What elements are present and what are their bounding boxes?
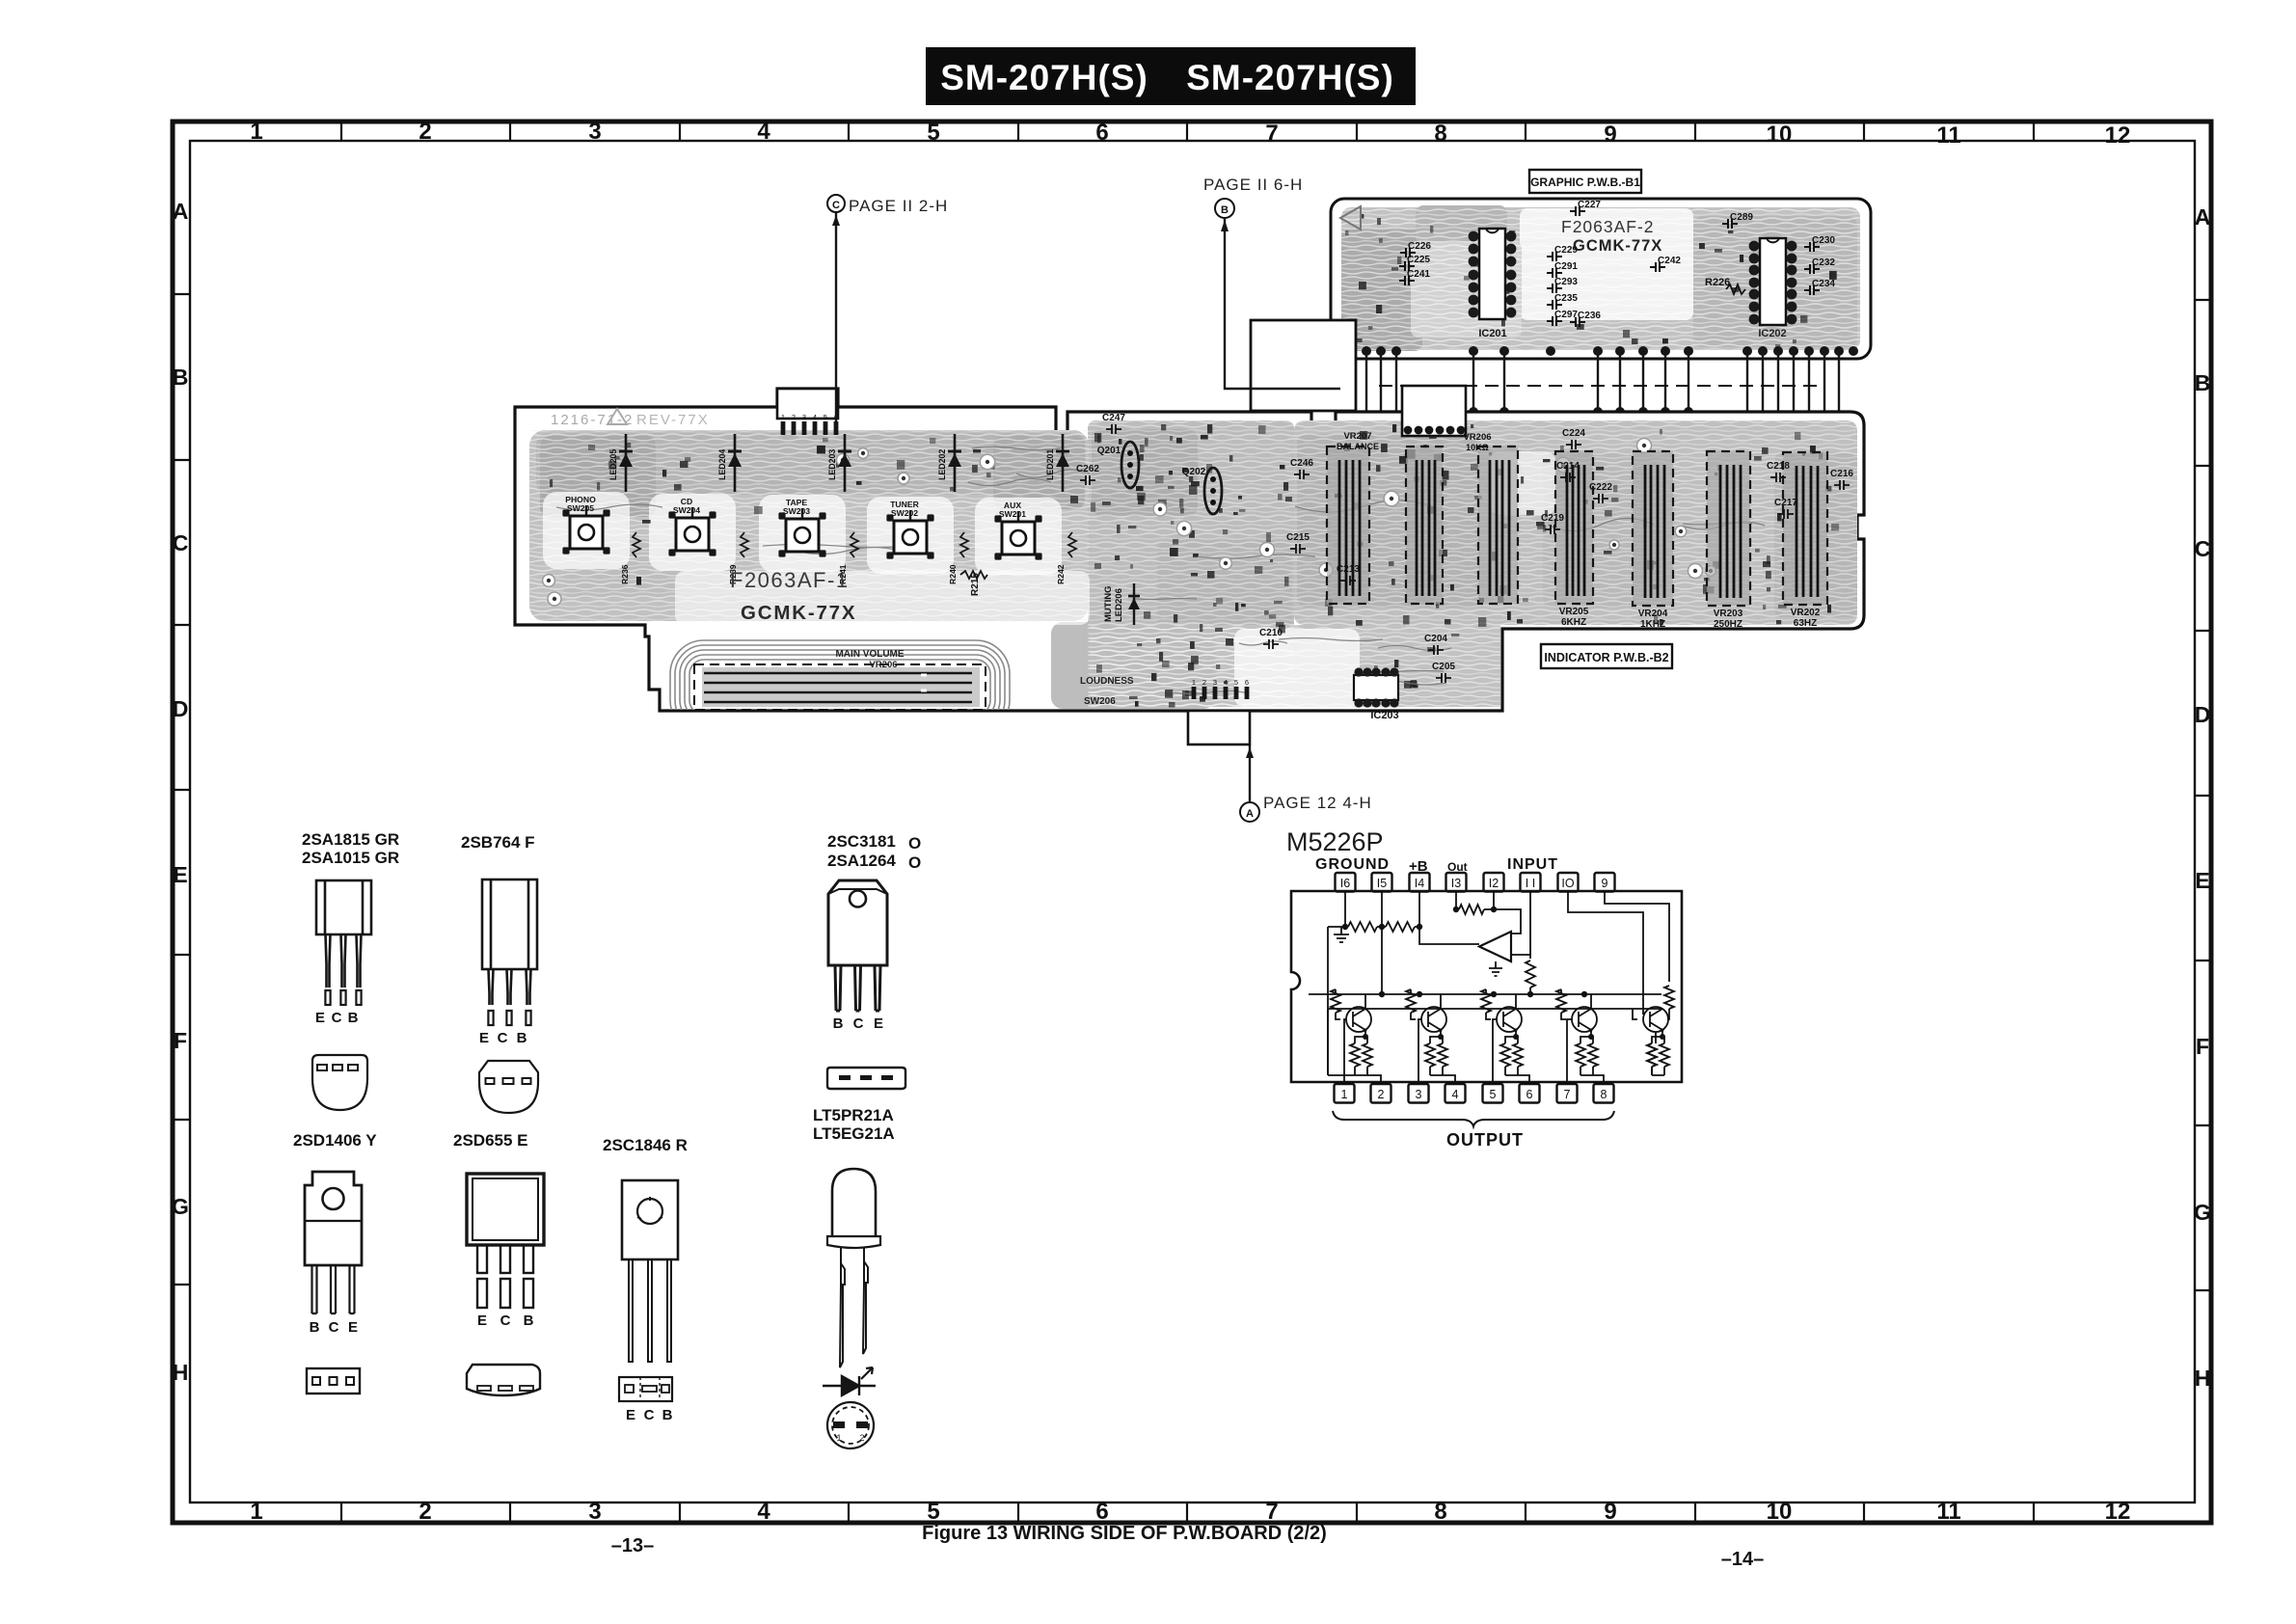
resistor R242 xyxy=(1056,532,1076,584)
svg-text:I4: I4 xyxy=(1415,877,1424,890)
svg-text:I3: I3 xyxy=(1451,877,1461,890)
svg-text:11: 11 xyxy=(1936,1499,1960,1525)
svg-text:IC201: IC201 xyxy=(1478,328,1506,339)
svg-text:M5226P: M5226P xyxy=(1286,827,1384,856)
svg-text:R236: R236 xyxy=(620,564,630,584)
svg-text:C: C xyxy=(644,1407,655,1423)
svg-text:12: 12 xyxy=(2105,1499,2131,1525)
capacitor C235 xyxy=(1547,293,1578,310)
top band ticks xyxy=(173,122,2211,1523)
svg-text:6: 6 xyxy=(1245,678,1249,687)
svg-text:LED205: LED205 xyxy=(608,449,618,480)
svg-text:Figure 13 WIRING SIDE OF P.W.: Figure 13 WIRING SIDE OF P.W.BOARD (2/2) xyxy=(922,1523,1327,1544)
svg-text:C241: C241 xyxy=(1407,269,1430,280)
connector tab VR207 balance pot slot xyxy=(1251,320,1356,411)
svg-text:C219: C219 xyxy=(1541,513,1564,524)
capacitor C297 xyxy=(1547,310,1578,326)
svg-text:VR205: VR205 xyxy=(1559,607,1589,617)
connector CN (bottom, to page 12 4-H) xyxy=(1188,678,1250,744)
capacitor C226 xyxy=(1400,241,1431,257)
svg-text:F: F xyxy=(174,1028,187,1053)
node C PAGE 11 2-H xyxy=(827,195,948,429)
svg-text:C210: C210 xyxy=(1259,628,1283,638)
LED bottom view xyxy=(827,1402,874,1448)
graphic equalizer board GRAPHIC PWB-B1 outline xyxy=(1331,199,1871,359)
capacitor C242 xyxy=(1650,256,1681,272)
svg-text:4: 4 xyxy=(1224,678,1228,687)
transistor cell T5 xyxy=(1633,1007,1669,1075)
svg-text:C224: C224 xyxy=(1562,428,1585,439)
capacitor C215 xyxy=(1286,532,1310,554)
switch SW202 TUNER xyxy=(886,500,933,559)
svg-text:E: E xyxy=(2195,868,2209,893)
transistor package 2SA1815/2SA1015 xyxy=(302,830,399,1110)
svg-text:1: 1 xyxy=(250,1499,262,1525)
svg-text:SM-207H(S): SM-207H(S) xyxy=(940,58,1148,97)
svg-text:E: E xyxy=(348,1319,358,1336)
capacitor C230 xyxy=(1804,235,1835,252)
svg-text:B: B xyxy=(310,1319,320,1336)
svg-text:4: 4 xyxy=(757,1499,770,1525)
svg-text:B: B xyxy=(1221,204,1229,216)
svg-text:E: E xyxy=(479,1030,489,1046)
svg-text:Q202: Q202 xyxy=(1182,467,1206,477)
svg-text:GCMK-77X: GCMK-77X xyxy=(1573,237,1662,255)
svg-text:Q201: Q201 xyxy=(1097,446,1121,456)
svg-text:2SD655 E: 2SD655 E xyxy=(453,1131,528,1150)
connector CN (top, to page 11 2-H) xyxy=(777,389,838,435)
capacitor C218 xyxy=(1767,461,1790,482)
svg-text:C262: C262 xyxy=(1076,464,1099,474)
svg-text:D: D xyxy=(2195,702,2211,727)
svg-text:C297: C297 xyxy=(1554,310,1578,320)
svg-text:4: 4 xyxy=(757,119,770,145)
capacitor C247 xyxy=(1102,413,1125,434)
volume slider VR206 MAIN VOLUME xyxy=(694,649,986,710)
svg-text:R242: R242 xyxy=(1056,564,1066,584)
svg-text:5: 5 xyxy=(1234,678,1238,687)
svg-text:2: 2 xyxy=(419,1499,431,1525)
capacitor C210 xyxy=(1259,628,1283,649)
capacitor C205 xyxy=(1432,662,1455,683)
svg-text:2SC3181: 2SC3181 xyxy=(827,832,896,851)
svg-text:IC203: IC203 xyxy=(1370,710,1398,721)
svg-text:63HZ: 63HZ xyxy=(1794,618,1817,629)
svg-text:INDICATOR P.W.B.-B2: INDICATOR P.W.B.-B2 xyxy=(1544,651,1668,664)
svg-text:I2: I2 xyxy=(1489,877,1499,890)
slider pot VR204 xyxy=(1633,451,1673,630)
svg-text:IO: IO xyxy=(1561,877,1574,890)
svg-text:G: G xyxy=(2194,1200,2211,1225)
slider pot VR205 xyxy=(1555,451,1593,628)
svg-text:O: O xyxy=(908,834,921,853)
svg-text:8: 8 xyxy=(1434,121,1446,147)
svg-text:C232: C232 xyxy=(1812,257,1835,268)
svg-text:B: B xyxy=(833,1015,844,1032)
svg-text:MUTING: MUTING xyxy=(1103,586,1114,622)
op-amp IC201 (DIP package) xyxy=(1469,229,1517,339)
svg-text:C289: C289 xyxy=(1730,212,1753,223)
svg-text:B: B xyxy=(662,1407,673,1423)
svg-text:LT5PR21A: LT5PR21A xyxy=(813,1106,894,1124)
svg-text:1: 1 xyxy=(836,1433,841,1443)
svg-text:LT5EG21A: LT5EG21A xyxy=(813,1124,895,1143)
svg-text:C227: C227 xyxy=(1578,200,1601,210)
transistor cell T4 xyxy=(1556,989,1598,1075)
LED LED204 xyxy=(717,434,742,492)
svg-text:VR207: VR207 xyxy=(1343,431,1371,442)
svg-text:A: A xyxy=(1246,808,1254,820)
svg-text:VR203: VR203 xyxy=(1714,609,1743,619)
svg-text:B: B xyxy=(2195,370,2211,395)
svg-text:SW206: SW206 xyxy=(1084,696,1116,707)
transistor Q202 xyxy=(1182,467,1222,514)
svg-text:SW204: SW204 xyxy=(673,505,700,515)
svg-text:F2063AF-1: F2063AF-1 xyxy=(730,568,850,592)
svg-text:GRAPHIC P.W.B.-B1: GRAPHIC P.W.B.-B1 xyxy=(1530,176,1640,189)
svg-text:R226: R226 xyxy=(1705,277,1730,288)
switch SW203 TAPE xyxy=(778,498,825,557)
svg-text:2SD1406 Y: 2SD1406 Y xyxy=(293,1131,377,1150)
svg-text:LED204: LED204 xyxy=(717,449,727,480)
svg-text:SW205: SW205 xyxy=(567,503,594,513)
switch SW204 CD xyxy=(668,497,716,556)
svg-text:PAGE 12 4-H: PAGE 12 4-H xyxy=(1263,794,1372,812)
slider pot VR xyxy=(1406,447,1443,604)
LED LED205 xyxy=(608,434,633,492)
trace squiggles xyxy=(556,447,1765,694)
svg-text:E: E xyxy=(477,1313,487,1329)
svg-text:3: 3 xyxy=(802,413,806,421)
svg-text:9: 9 xyxy=(1602,877,1608,890)
svg-text:2SA1815 GR: 2SA1815 GR xyxy=(302,830,399,849)
svg-text:VR204: VR204 xyxy=(1638,609,1668,619)
svg-text:C215: C215 xyxy=(1286,532,1310,543)
slider pot VR xyxy=(1327,447,1369,604)
capacitor C213 xyxy=(1337,564,1360,585)
svg-text:C: C xyxy=(498,1030,508,1046)
svg-text:BALANCE: BALANCE xyxy=(1337,442,1379,451)
svg-text:9: 9 xyxy=(1604,1499,1616,1525)
svg-text:–14–: –14– xyxy=(1721,1549,1765,1570)
svg-text:I I: I I xyxy=(1526,877,1535,890)
svg-text:1: 1 xyxy=(781,413,785,421)
capacitor C217 xyxy=(1774,498,1797,519)
svg-text:10: 10 xyxy=(1767,1499,1793,1525)
transistor cell T3 xyxy=(1481,989,1523,1075)
svg-text:VR206: VR206 xyxy=(1463,432,1491,443)
svg-text:C218: C218 xyxy=(1767,461,1790,472)
capacitor C232 xyxy=(1804,257,1835,274)
svg-text:11: 11 xyxy=(1936,122,1960,149)
svg-text:C230: C230 xyxy=(1812,235,1835,246)
slider pot VR203 xyxy=(1707,451,1750,630)
svg-text:6: 6 xyxy=(1095,120,1108,146)
IC body xyxy=(1291,891,1682,1082)
svg-text:INPUT: INPUT xyxy=(1507,856,1558,873)
svg-text:SM-207H(S): SM-207H(S) xyxy=(1186,58,1394,97)
svg-text:12: 12 xyxy=(2105,122,2131,149)
internal wiring xyxy=(1328,891,1349,1075)
capacitor C289 xyxy=(1722,212,1753,229)
svg-text:MAIN VOLUME: MAIN VOLUME xyxy=(835,649,904,660)
svg-text:I6: I6 xyxy=(1340,877,1350,890)
svg-text:B: B xyxy=(348,1010,359,1026)
svg-text:E: E xyxy=(626,1407,635,1423)
capacitor C219 xyxy=(1541,513,1564,534)
svg-text:O: O xyxy=(908,853,921,872)
svg-text:C222: C222 xyxy=(1589,482,1612,493)
transistor package 2SD655 xyxy=(453,1131,544,1395)
svg-text:C: C xyxy=(853,1015,864,1032)
svg-text:2: 2 xyxy=(792,413,796,421)
svg-text:OUTPUT: OUTPUT xyxy=(1446,1130,1524,1150)
svg-text:C217: C217 xyxy=(1774,498,1797,508)
svg-text:E: E xyxy=(874,1015,883,1032)
svg-text:SW201: SW201 xyxy=(999,509,1026,519)
svg-text:8: 8 xyxy=(1434,1499,1446,1525)
transistor package 2SC1846 xyxy=(603,1136,688,1423)
svg-text:C291: C291 xyxy=(1554,261,1578,272)
transistor package 2SC3181/2SA1264 xyxy=(827,832,921,1089)
label GRAPHIC PWB-B1 xyxy=(1529,170,1641,193)
svg-text:C: C xyxy=(832,200,840,211)
slider pot VR xyxy=(1478,447,1518,604)
svg-text:E: E xyxy=(173,862,187,887)
svg-text:8: 8 xyxy=(1601,1088,1607,1101)
transistor package 2SB764 xyxy=(461,833,538,1113)
svg-text:2: 2 xyxy=(419,119,431,145)
svg-text:C214: C214 xyxy=(1556,461,1580,472)
svg-text:C234: C234 xyxy=(1812,279,1835,289)
LED206 MUTING xyxy=(1103,583,1140,625)
switch SW205 PHONO xyxy=(562,495,609,555)
capacitor C222 xyxy=(1589,482,1612,503)
capacitor C262 xyxy=(1076,464,1099,485)
svg-text:5: 5 xyxy=(824,413,827,421)
capacitor C229 xyxy=(1547,245,1578,261)
svg-text:C205: C205 xyxy=(1432,662,1455,672)
capacitor C293 xyxy=(1547,277,1578,293)
svg-text:VR206: VR206 xyxy=(869,660,897,670)
svg-text:C226: C226 xyxy=(1408,241,1431,252)
svg-text:REV-77X: REV-77X xyxy=(636,412,710,428)
LED LED201 xyxy=(1045,434,1069,492)
transistor cell T2 xyxy=(1406,989,1447,1075)
capacitor C241 xyxy=(1399,269,1430,285)
connector tab (6P) xyxy=(1402,386,1466,436)
svg-text:C242: C242 xyxy=(1658,256,1681,266)
svg-text:9: 9 xyxy=(1604,122,1616,148)
svg-text:C293: C293 xyxy=(1554,277,1578,287)
svg-text:2SA1264: 2SA1264 xyxy=(827,852,896,870)
svg-text:10: 10 xyxy=(1767,122,1793,148)
svg-text:2: 2 xyxy=(859,1433,864,1443)
svg-text:2SC1846 R: 2SC1846 R xyxy=(603,1136,688,1154)
transistor cell T1 xyxy=(1331,989,1372,1075)
capacitor C246 xyxy=(1290,458,1313,479)
svg-text:A: A xyxy=(173,199,189,224)
svg-text:C236: C236 xyxy=(1578,311,1601,321)
capacitor C216 xyxy=(1830,469,1853,490)
label INDICATOR PWB-B2 xyxy=(1541,644,1672,668)
resistor R239 xyxy=(728,532,748,584)
svg-text:3: 3 xyxy=(588,1499,601,1525)
svg-text:3: 3 xyxy=(1213,678,1217,687)
svg-text:LOUDNESS: LOUDNESS xyxy=(1080,676,1134,687)
capacitor C224 xyxy=(1562,428,1585,449)
capacitor C291 xyxy=(1547,261,1578,278)
svg-text:GCMK-77X: GCMK-77X xyxy=(741,602,856,624)
svg-text:–13–: –13– xyxy=(611,1535,655,1556)
svg-text:B: B xyxy=(517,1030,527,1046)
svg-text:LED203: LED203 xyxy=(827,449,837,480)
svg-text:4: 4 xyxy=(813,413,817,421)
main board F2063AF-1 outline xyxy=(515,389,1864,711)
switch SW201 AUX xyxy=(994,501,1041,560)
svg-text:F2063AF-2: F2063AF-2 xyxy=(1561,217,1655,236)
svg-text:C: C xyxy=(500,1313,511,1329)
svg-text:C: C xyxy=(173,530,189,555)
svg-text:C229: C229 xyxy=(1554,245,1578,256)
board name F2063AF-2 xyxy=(1561,217,1662,255)
svg-text:A: A xyxy=(2195,204,2211,230)
LED symbol xyxy=(823,1367,876,1395)
svg-text:10KΩ: 10KΩ xyxy=(1466,443,1489,452)
svg-text:VR202: VR202 xyxy=(1791,608,1821,618)
LED LED203 xyxy=(827,434,851,492)
svg-text:LED202: LED202 xyxy=(937,449,947,480)
svg-text:7: 7 xyxy=(1265,121,1278,147)
svg-text:7: 7 xyxy=(1564,1088,1571,1101)
svg-text:G: G xyxy=(172,1194,189,1219)
svg-text:4: 4 xyxy=(1452,1088,1459,1101)
op-amp IC202 (DIP package) xyxy=(1749,238,1797,339)
svg-text:C246: C246 xyxy=(1290,458,1313,469)
transistor package 2SD1406 xyxy=(293,1131,377,1394)
svg-text:C204: C204 xyxy=(1424,634,1447,644)
capacitor C236 xyxy=(1570,311,1601,327)
svg-text:PAGE II 6-H: PAGE II 6-H xyxy=(1203,176,1303,194)
svg-text:2: 2 xyxy=(1202,678,1206,687)
svg-text:6: 6 xyxy=(1095,1499,1108,1525)
svg-text:2SA1015 GR: 2SA1015 GR xyxy=(302,849,399,867)
svg-text:7: 7 xyxy=(1265,1499,1278,1525)
svg-text:6KHZ: 6KHZ xyxy=(1561,617,1586,628)
svg-text:250HZ: 250HZ xyxy=(1714,619,1742,630)
svg-text:3: 3 xyxy=(1416,1088,1422,1101)
slider pot VR202 xyxy=(1783,452,1827,629)
node B PAGE 11 6-H xyxy=(1203,176,1340,389)
svg-text:1: 1 xyxy=(1341,1088,1348,1101)
svg-text:H: H xyxy=(2195,1366,2211,1391)
svg-text:D: D xyxy=(173,696,189,721)
svg-text:IC202: IC202 xyxy=(1758,328,1786,339)
svg-text:C247: C247 xyxy=(1102,413,1125,423)
svg-text:SW202: SW202 xyxy=(891,508,918,518)
svg-text:C: C xyxy=(329,1319,339,1336)
svg-text:5: 5 xyxy=(927,120,939,146)
svg-text:3: 3 xyxy=(588,119,601,145)
LED LED202 xyxy=(937,434,961,492)
wire harness graphic board to main board xyxy=(1351,353,1839,430)
capacitor C225 xyxy=(1399,255,1430,271)
capacitor C227 xyxy=(1570,200,1601,216)
output brace xyxy=(1333,1111,1614,1126)
svg-text:6: 6 xyxy=(1526,1088,1533,1101)
via pads xyxy=(543,439,1716,607)
capacitor C234 xyxy=(1804,279,1835,295)
orientation triangle mark xyxy=(1340,206,1361,230)
svg-text:2: 2 xyxy=(1378,1088,1385,1101)
svg-text:LED206: LED206 xyxy=(1114,588,1124,622)
svg-text:F: F xyxy=(2196,1034,2209,1059)
svg-text:5: 5 xyxy=(1490,1088,1497,1101)
svg-text:1: 1 xyxy=(250,119,262,145)
svg-text:E: E xyxy=(315,1010,325,1026)
capacitor C214 xyxy=(1556,461,1580,482)
svg-text:B: B xyxy=(524,1313,534,1329)
svg-text:5: 5 xyxy=(927,1499,939,1525)
resistor R241 xyxy=(838,532,858,584)
dashed connector line xyxy=(1379,385,1823,387)
transistor Q201 xyxy=(1097,442,1139,488)
svg-text:H: H xyxy=(173,1360,189,1385)
svg-text:C216: C216 xyxy=(1830,469,1853,479)
svg-text:GROUND: GROUND xyxy=(1315,856,1390,873)
svg-text:PAGE II 2-H: PAGE II 2-H xyxy=(849,197,948,215)
svg-text:C235: C235 xyxy=(1554,293,1578,304)
resistor R236 xyxy=(620,532,640,584)
IC203 (DIP package) xyxy=(1354,667,1399,721)
svg-text:R240: R240 xyxy=(948,564,958,584)
svg-text:2SB764 F: 2SB764 F xyxy=(461,833,535,852)
capacitor C204 xyxy=(1424,634,1447,655)
svg-text:1KHZ: 1KHZ xyxy=(1640,619,1665,630)
svg-text:1: 1 xyxy=(1192,678,1196,687)
node A PAGE 12 4-H xyxy=(1240,745,1372,822)
svg-text:C213: C213 xyxy=(1337,564,1360,575)
svg-text:LED201: LED201 xyxy=(1045,449,1055,480)
resistor R240 xyxy=(948,532,968,584)
LED package LT5PR21A/LT5EG21A xyxy=(813,1106,895,1367)
svg-text:C: C xyxy=(2195,536,2211,561)
svg-text:C: C xyxy=(332,1010,342,1026)
svg-text:B: B xyxy=(173,365,189,390)
svg-text:SW203: SW203 xyxy=(783,506,810,516)
svg-text:I5: I5 xyxy=(1377,877,1387,890)
